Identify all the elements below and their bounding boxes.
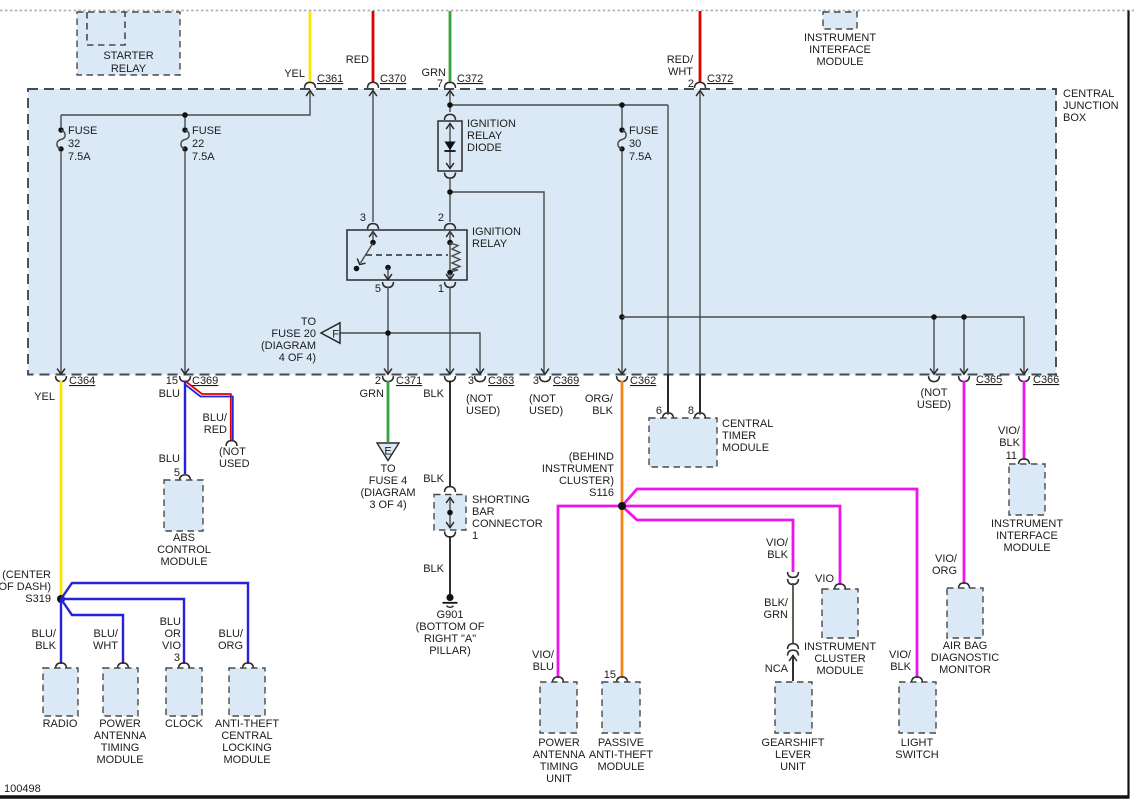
svg-text:STARTER: STARTER	[103, 50, 153, 62]
svg-text:BLK: BLK	[423, 563, 444, 575]
BOTTOMLEFT	[0, 381, 279, 767]
svg-text:E: E	[384, 446, 391, 458]
wire: RED/WHT C372 to central timer pin 8	[699, 92, 701, 415]
svg-text:USED): USED)	[917, 399, 951, 411]
svg-text:IGNITION: IGNITION	[467, 118, 516, 130]
svg-text:F: F	[332, 329, 339, 341]
svg-text:MODULE: MODULE	[223, 754, 270, 766]
wire: fuse 30 output to C362	[621, 152, 623, 374]
wire VIO S116 to instrument cluster module	[622, 506, 840, 585]
connector C366	[1019, 369, 1030, 382]
svg-text:DIODE: DIODE	[467, 142, 502, 154]
svg-text:(DIAGRAM: (DIAGRAM	[261, 340, 316, 352]
svg-text:C370: C370	[380, 73, 406, 85]
svg-text:SHORTING: SHORTING	[472, 494, 530, 506]
svg-text:FUSE 20: FUSE 20	[271, 328, 316, 340]
fuse 30 7.5A	[618, 127, 626, 151]
fuse 22 7.5A	[181, 127, 189, 151]
svg-text:CENTRAL: CENTRAL	[221, 730, 272, 742]
svg-text:FUSE: FUSE	[629, 125, 658, 137]
svg-text:C369: C369	[553, 375, 579, 387]
svg-text:BLK: BLK	[423, 388, 444, 400]
svg-text:3: 3	[533, 375, 539, 387]
wire VIO/ORG from C365 to air bag diagnostic monitor	[963, 381, 966, 585]
instrument interface module	[991, 464, 1063, 554]
wire: RED feed C370 to relay pin 3	[372, 92, 374, 222]
svg-text:ANTENNA: ANTENNA	[533, 749, 586, 761]
svg-text:BLK: BLK	[999, 437, 1020, 449]
passive anti-theft module	[589, 682, 653, 773]
svg-text:FUSE: FUSE	[192, 125, 221, 137]
svg-text:RED: RED	[346, 54, 369, 66]
connector C364	[56, 369, 67, 382]
svg-text:(NOT: (NOT	[219, 446, 246, 458]
wire VIO/BLK S116 to in-line connector	[622, 506, 793, 572]
svg-text:C365: C365	[976, 374, 1002, 386]
svg-text:MODULE: MODULE	[597, 761, 644, 773]
connector: relay pin1 black lead exit	[445, 369, 456, 382]
svg-text:BLK: BLK	[423, 473, 444, 485]
power antenna timing unit pin connector	[553, 677, 564, 683]
svg-text:USED): USED)	[529, 405, 563, 417]
svg-text:IGNITION: IGNITION	[472, 226, 521, 238]
svg-text:C366: C366	[1033, 374, 1059, 386]
svg-text:GRN: GRN	[764, 609, 789, 621]
svg-text:C361: C361	[317, 73, 343, 85]
svg-text:GEARSHIFT: GEARSHIFT	[762, 737, 825, 749]
svg-text:5: 5	[174, 467, 180, 479]
svg-text:ORG: ORG	[932, 565, 957, 577]
svg-text:C372: C372	[707, 73, 733, 85]
svg-text:3 OF 4): 3 OF 4)	[369, 499, 406, 511]
svg-text:C372: C372	[457, 73, 483, 85]
pin 3	[368, 224, 379, 230]
junction fuse 30 tap	[619, 102, 625, 108]
instrument cluster module	[804, 589, 876, 677]
passive anti-theft module pin 15	[617, 677, 628, 683]
svg-text:BAR: BAR	[472, 506, 495, 518]
pin 2	[445, 224, 456, 230]
clock pin connector	[179, 663, 190, 669]
svg-text:BLU/: BLU/	[94, 628, 119, 640]
svg-text:MODULE: MODULE	[816, 665, 863, 677]
svg-text:C363: C363	[488, 375, 514, 387]
svg-text:NCA: NCA	[765, 663, 789, 675]
svg-text:8: 8	[688, 405, 694, 417]
svg-text:PASSIVE: PASSIVE	[598, 737, 644, 749]
svg-text:ABS: ABS	[173, 532, 195, 544]
svg-text:3: 3	[174, 652, 180, 664]
svg-text:JUNCTION: JUNCTION	[1063, 100, 1119, 112]
svg-text:WHT: WHT	[93, 640, 118, 652]
connector (not used) drop	[929, 369, 940, 382]
connector C362	[617, 369, 628, 382]
junction at fuse 22 column	[182, 112, 188, 118]
svg-text:ORG: ORG	[218, 640, 243, 652]
TOPWIRES	[284, 11, 733, 96]
wire BLU/ORG S319 to anti-theft module	[61, 583, 248, 664]
svg-text:SWITCH: SWITCH	[895, 749, 938, 761]
svg-text:2: 2	[688, 78, 694, 90]
clock	[165, 668, 204, 730]
wire: pin 8 riser (below junction box)	[699, 375, 701, 413]
svg-text:3: 3	[468, 375, 474, 387]
svg-text:4 OF 4): 4 OF 4)	[279, 352, 316, 364]
svg-text:VIO/: VIO/	[998, 425, 1021, 437]
splice S116	[618, 502, 626, 510]
svg-text:BLU: BLU	[160, 616, 181, 628]
svg-text:7: 7	[437, 78, 443, 90]
svg-text:BLU/: BLU/	[219, 628, 244, 640]
power antenna timing module pin connector	[118, 663, 129, 669]
air bag diagnostic monitor	[931, 588, 1000, 676]
svg-text:MODULE: MODULE	[160, 556, 207, 568]
junction at C365/C366 bus	[619, 314, 625, 320]
svg-text:RADIO: RADIO	[43, 718, 78, 730]
wire: battery feed bus from C361 to fuses	[61, 92, 310, 127]
wire VIO/BLU S116 to power antenna timing unit	[558, 506, 622, 678]
anti-theft central locking module	[215, 668, 279, 766]
svg-text:C371: C371	[396, 375, 422, 387]
svg-text:C364: C364	[69, 375, 95, 387]
wire: relay pin 5 to C371	[387, 287, 389, 374]
svg-text:VIO/: VIO/	[889, 649, 912, 661]
gearshift lever unit	[762, 682, 825, 773]
off-page arrow E to fuse 4	[361, 443, 416, 511]
pin 5	[385, 265, 391, 271]
wire: fuse 22 output to C369	[184, 152, 186, 374]
CJB	[28, 88, 1119, 375]
wire VIO/BLK S116 to light switch	[622, 489, 917, 678]
connector C369 pin 3 (not used)	[540, 369, 551, 382]
wire: pin 6 riser (below junction box)	[667, 375, 669, 413]
wire: bus to C365 / C366	[622, 317, 1024, 374]
svg-text:RIGHT "A": RIGHT "A"	[424, 633, 476, 645]
svg-text:INSTRUMENT: INSTRUMENT	[804, 641, 876, 653]
starter relay (clipped at top)	[77, 12, 180, 75]
top clip boundary dashed line	[0, 10, 1134, 12]
svg-text:G901: G901	[437, 609, 464, 621]
wire: fuse 32 output to C364	[60, 152, 62, 374]
svg-text:(CENTER: (CENTER	[2, 569, 51, 581]
svg-text:ORG/: ORG/	[585, 393, 614, 405]
wire BLU from C369 to ABS module pin 5	[184, 381, 186, 475]
svg-text:RED: RED	[204, 424, 227, 436]
connector C370	[368, 82, 379, 96]
svg-text:RELAY: RELAY	[467, 130, 503, 142]
connector C363 pin 3 (not used)	[475, 369, 486, 382]
svg-text:S116: S116	[589, 487, 614, 499]
svg-text:POWER: POWER	[538, 737, 580, 749]
svg-text:TO: TO	[301, 316, 317, 328]
svg-text:15: 15	[166, 375, 178, 387]
wire: diode output node	[450, 178, 544, 374]
connector C361	[305, 82, 316, 96]
svg-text:CLUSTER: CLUSTER	[814, 653, 865, 665]
svg-text:INTERFACE: INTERFACE	[809, 44, 871, 56]
wire NCA to gearshift lever unit	[792, 655, 794, 681]
svg-text:S319: S319	[25, 593, 51, 605]
svg-text:BLU: BLU	[159, 388, 180, 400]
BOTTOMMID	[360, 375, 939, 786]
junction C365 drop	[961, 314, 967, 320]
ignition relay diode D1	[438, 114, 516, 178]
svg-text:ANTENNA: ANTENNA	[94, 730, 147, 742]
svg-text:MODULE: MODULE	[96, 754, 143, 766]
svg-text:PILLAR): PILLAR)	[429, 645, 471, 657]
svg-text:22: 22	[192, 138, 204, 150]
svg-text:BLU/: BLU/	[203, 412, 228, 424]
light switch pin connector	[912, 677, 923, 683]
ignition relay K1	[347, 212, 521, 295]
wire ORG/BLK from C362 to S116 and passive anti-theft pin 15	[621, 381, 624, 679]
junction diode output	[447, 189, 453, 195]
svg-text:VIO/: VIO/	[532, 649, 555, 661]
svg-text:1: 1	[438, 283, 444, 295]
diagram bottom border bar	[0, 795, 1130, 799]
svg-text:2: 2	[438, 212, 444, 224]
svg-text:VIO/: VIO/	[766, 537, 789, 549]
svg-text:(NOT: (NOT	[921, 387, 948, 399]
svg-text:15: 15	[604, 669, 616, 681]
svg-text:TO: TO	[380, 463, 396, 475]
svg-text:INTERFACE: INTERFACE	[996, 530, 1058, 542]
ground G901	[416, 594, 485, 657]
svg-text:(NOT: (NOT	[529, 393, 556, 405]
radio	[43, 668, 78, 730]
splice S116 label	[542, 451, 614, 499]
instrument cluster module pin connector	[835, 584, 846, 590]
svg-text:CONTROL: CONTROL	[157, 544, 211, 556]
svg-text:MODULE: MODULE	[722, 442, 769, 454]
svg-text:MODULE: MODULE	[1003, 542, 1050, 554]
svg-text:DIAGNOSTIC: DIAGNOSTIC	[931, 652, 1000, 664]
svg-text:BLU: BLU	[159, 453, 180, 465]
svg-text:BLK: BLK	[890, 661, 911, 673]
wire: to fuse 20 tap	[340, 333, 480, 374]
wire RED feed into C370	[372, 11, 375, 83]
svg-text:C362: C362	[630, 375, 656, 387]
svg-text:100498: 100498	[4, 783, 41, 795]
svg-text:1: 1	[472, 530, 478, 542]
svg-text:CONNECTOR: CONNECTOR	[472, 518, 543, 530]
instrument interface module pin connector	[1019, 459, 1030, 465]
svg-text:BLK: BLK	[592, 405, 613, 417]
svg-text:LIGHT: LIGHT	[901, 737, 934, 749]
connector C365	[959, 369, 970, 382]
svg-text:GRN: GRN	[360, 388, 385, 400]
wire YEL from C364 to S319	[60, 381, 63, 599]
svg-text:WHT: WHT	[668, 66, 693, 78]
svg-text:CLOCK: CLOCK	[165, 718, 204, 730]
svg-text:AIR BAG: AIR BAG	[943, 640, 988, 652]
svg-text:LEVER: LEVER	[775, 749, 811, 761]
TOPBOXES	[77, 12, 876, 75]
shorting bar connector 1	[434, 487, 543, 542]
wire BLK from relay pin 1 to shorting bar	[449, 381, 451, 487]
wire: relay pin 1 to ground exit	[449, 287, 451, 374]
central timer module	[649, 418, 773, 467]
junction not-used drop	[931, 314, 937, 320]
wire YEL feed into C361	[309, 11, 312, 83]
relay switch arm	[370, 240, 376, 246]
svg-text:BLU/: BLU/	[32, 628, 57, 640]
svg-text:32: 32	[68, 138, 80, 150]
light switch	[895, 682, 938, 761]
EXITS	[56, 369, 1060, 417]
svg-text:CLUSTER): CLUSTER)	[559, 475, 614, 487]
relay internal dashed link	[366, 254, 448, 256]
wire BLU/WHT S319 to power antenna timing module	[61, 599, 123, 664]
svg-text:INSTRUMENT: INSTRUMENT	[804, 32, 876, 44]
svg-text:MONITOR: MONITOR	[939, 664, 991, 676]
instrument interface module (top, clipped)	[804, 12, 876, 68]
power antenna timing unit	[533, 682, 586, 785]
off-page arrow F to fuse 20	[261, 316, 340, 364]
connector C369 pin 15	[180, 369, 191, 382]
svg-text:11: 11	[1006, 450, 1017, 462]
svg-text:7.5A: 7.5A	[629, 151, 652, 163]
svg-text:CENTRAL: CENTRAL	[1063, 88, 1114, 100]
connector C371 pin 2	[383, 369, 394, 382]
svg-text:RED/: RED/	[667, 54, 694, 66]
wire VIO/BLK from C366 to instrument interface module pin 11	[1023, 381, 1026, 461]
relay coil	[447, 240, 453, 246]
wire BLU OR VIO S319 to clock pin 3	[61, 599, 184, 664]
pin 1	[449, 273, 451, 279]
svg-text:5: 5	[375, 283, 381, 295]
svg-text:RELAY: RELAY	[472, 238, 508, 250]
svg-text:VIO: VIO	[162, 640, 181, 652]
fuse 32 7.5A	[57, 127, 65, 151]
svg-text:(NOT: (NOT	[466, 393, 493, 405]
BOTTOMRIGHT	[931, 381, 1064, 677]
ABS control module	[157, 480, 211, 568]
svg-text:VIO/: VIO/	[935, 553, 958, 565]
svg-text:OF DASH): OF DASH)	[0, 581, 51, 593]
wire: GRN feed bus	[450, 92, 668, 415]
svg-text:USED: USED	[219, 458, 250, 470]
svg-text:BLU: BLU	[533, 661, 554, 673]
splice S319	[0, 569, 65, 605]
svg-text:FUSE 4: FUSE 4	[369, 475, 408, 487]
connector C372 (instrument side)	[695, 82, 706, 96]
diagram right border	[1127, 11, 1129, 798]
svg-text:USED): USED)	[466, 405, 500, 417]
wire RED/WHT feed into C372 pin 2	[699, 11, 702, 83]
svg-text:ANTI-THEFT: ANTI-THEFT	[589, 749, 653, 761]
wire BLK/GRN	[792, 583, 794, 644]
svg-text:3: 3	[360, 212, 366, 224]
power antenna timing module	[94, 668, 147, 766]
svg-text:VIO: VIO	[815, 573, 834, 585]
radio pin connector	[56, 663, 67, 669]
svg-text:UNIT: UNIT	[546, 773, 572, 785]
svg-text:BLK: BLK	[35, 640, 56, 652]
connector C372	[445, 82, 456, 96]
svg-text:(BOTTOM OF: (BOTTOM OF	[416, 621, 485, 633]
svg-text:(BEHIND: (BEHIND	[569, 451, 614, 463]
svg-text:INSTRUMENT: INSTRUMENT	[991, 518, 1063, 530]
svg-text:POWER: POWER	[99, 718, 141, 730]
svg-text:TIMER: TIMER	[722, 430, 756, 442]
anti-theft central locking module pin connector	[243, 663, 254, 669]
junction fuse 20 tap	[385, 330, 391, 336]
in-line connector (VIO/BLK to BLK/GRN)	[788, 572, 799, 578]
svg-text:(DIAGRAM: (DIAGRAM	[361, 487, 416, 499]
wire BLU/BLK S319 to radio	[60, 599, 62, 664]
INSIDE	[57, 92, 1024, 415]
svg-text:BLK/: BLK/	[764, 597, 789, 609]
svg-text:CENTRAL: CENTRAL	[722, 418, 773, 430]
svg-text:2: 2	[375, 375, 381, 387]
svg-text:ANTI-THEFT: ANTI-THEFT	[215, 718, 279, 730]
wire GRN from C371	[387, 381, 390, 443]
air bag monitor pin connector	[959, 583, 970, 589]
svg-text:6: 6	[656, 405, 662, 417]
svg-text:YEL: YEL	[34, 391, 55, 403]
svg-text:INSTRUMENT: INSTRUMENT	[542, 463, 614, 475]
svg-text:30: 30	[629, 138, 641, 150]
svg-text:BLK: BLK	[767, 549, 788, 561]
svg-text:7.5A: 7.5A	[192, 151, 215, 163]
svg-text:RELAY: RELAY	[111, 63, 147, 75]
central timer module pins 6 and 8	[663, 413, 674, 419]
wire GRN feed into C372 pin 7	[449, 11, 452, 83]
junction GRN node	[447, 102, 453, 108]
svg-text:7.5A: 7.5A	[68, 151, 91, 163]
svg-text:OR: OR	[165, 628, 182, 640]
central junction box	[28, 89, 1056, 375]
svg-text:LOCKING: LOCKING	[222, 742, 272, 754]
svg-text:TIMING: TIMING	[101, 742, 140, 754]
starter relay inner coil box	[87, 12, 125, 45]
svg-text:MODULE: MODULE	[816, 56, 863, 68]
wire BLU/RED stub (not used)	[185, 382, 250, 470]
svg-text:TIMING: TIMING	[540, 761, 579, 773]
wire BLK to G901	[449, 537, 451, 595]
svg-text:UNIT: UNIT	[780, 761, 806, 773]
svg-text:YEL: YEL	[284, 68, 305, 80]
in-line connector (BLK/GRN to NCA)	[788, 644, 799, 650]
svg-text:BOX: BOX	[1063, 112, 1087, 124]
svg-text:C369: C369	[192, 375, 218, 387]
svg-text:FUSE: FUSE	[68, 125, 97, 137]
